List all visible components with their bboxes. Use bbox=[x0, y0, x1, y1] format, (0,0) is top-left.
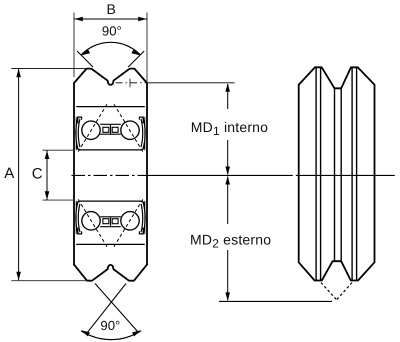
svg-text:B: B bbox=[107, 1, 116, 17]
svg-text:C: C bbox=[32, 166, 43, 183]
svg-text:A: A bbox=[4, 165, 14, 182]
svg-text:90°: 90° bbox=[102, 23, 122, 38]
svg-text:MD2 esterno: MD2 esterno bbox=[190, 232, 271, 251]
svg-text:MD1 interno: MD1 interno bbox=[191, 119, 268, 138]
svg-text:90°: 90° bbox=[100, 318, 120, 333]
